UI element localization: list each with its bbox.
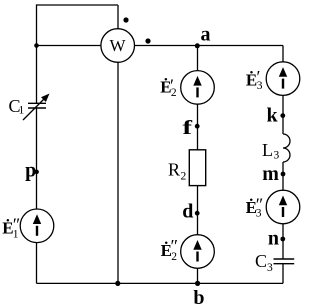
source E2'': [181, 235, 215, 269]
svg-text:1: 1: [19, 105, 25, 117]
source E3'': [266, 190, 300, 224]
wire bottom horizontal: [37, 282, 284, 284]
node m: [281, 172, 286, 177]
source E1'': [20, 209, 54, 243]
wire left vertical middle and lower segments: [36, 108, 38, 283]
svg-text:p: p: [25, 160, 36, 182]
polarity dot top: [123, 17, 128, 22]
svg-text:a: a: [201, 24, 211, 46]
resistor R2: [189, 150, 205, 186]
wattmeter W: [101, 29, 135, 63]
svg-text:3: 3: [267, 262, 273, 274]
wire main horizontal left of W: [37, 45, 102, 47]
source E2': [181, 71, 215, 105]
svg-text:R: R: [168, 160, 180, 180]
svg-text:b: b: [193, 287, 204, 306]
wire main horizontal right of W: [135, 45, 283, 47]
svg-text:W: W: [109, 36, 126, 55]
svg-text:3: 3: [257, 80, 263, 92]
wire left vertical upper segment: [36, 4, 38, 103]
node k: [280, 113, 285, 118]
wire middle branch segments: [197, 46, 199, 284]
source E3': [266, 62, 300, 96]
node b: [195, 281, 200, 286]
node p: [34, 170, 39, 175]
svg-text:3: 3: [274, 150, 280, 162]
junction node left of W: [34, 43, 39, 48]
wire right branch segments: [282, 46, 284, 284]
svg-text:L: L: [262, 140, 273, 160]
svg-text:k: k: [267, 105, 279, 127]
svg-text:m: m: [262, 163, 279, 185]
svg-text:C: C: [255, 251, 267, 271]
svg-text:f: f: [183, 117, 193, 139]
junction node below W on bottom wire: [115, 281, 120, 286]
wire wattmeter vertical top: [117, 5, 119, 29]
svg-text:2: 2: [171, 251, 177, 263]
node a: [195, 43, 200, 48]
node d: [195, 211, 200, 216]
inductor L3: [283, 134, 290, 162]
svg-text:d: d: [182, 201, 193, 223]
node f: [195, 124, 200, 129]
wire top horizontal: [37, 4, 119, 6]
svg-text:1: 1: [13, 229, 19, 241]
wire wattmeter vertical bottom: [117, 62, 119, 283]
polarity dot right: [145, 38, 150, 43]
capacitor C1 (variable): [28, 103, 46, 108]
svg-text:2: 2: [181, 171, 187, 183]
svg-text:n: n: [268, 228, 279, 250]
svg-text:3: 3: [256, 208, 262, 220]
svg-text:2: 2: [171, 87, 177, 99]
capacitor C3: [274, 259, 295, 264]
node n: [280, 237, 285, 242]
